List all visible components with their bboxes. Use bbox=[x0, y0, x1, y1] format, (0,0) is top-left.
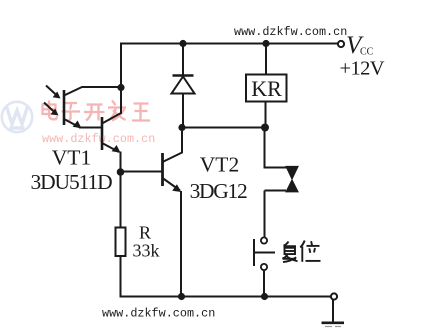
svg-text:3DG12: 3DG12 bbox=[190, 179, 247, 203]
svg-text:www.dzkfw.com.cn: www.dzkfw.com.cn bbox=[42, 132, 155, 146]
svg-text:CC: CC bbox=[360, 47, 374, 58]
svg-text:3DU511D: 3DU511D bbox=[30, 170, 112, 194]
svg-text:KR: KR bbox=[251, 76, 282, 101]
svg-text:VT1: VT1 bbox=[52, 146, 91, 170]
svg-text:VT2: VT2 bbox=[200, 153, 239, 177]
svg-text:R: R bbox=[139, 223, 151, 243]
svg-text:33k: 33k bbox=[133, 241, 160, 261]
svg-text:+12V: +12V bbox=[340, 58, 385, 80]
svg-text:www.dzkfw.com.cn: www.dzkfw.com.cn bbox=[234, 25, 347, 39]
svg-text:www.dzkfw.com.cn: www.dzkfw.com.cn bbox=[102, 307, 215, 321]
